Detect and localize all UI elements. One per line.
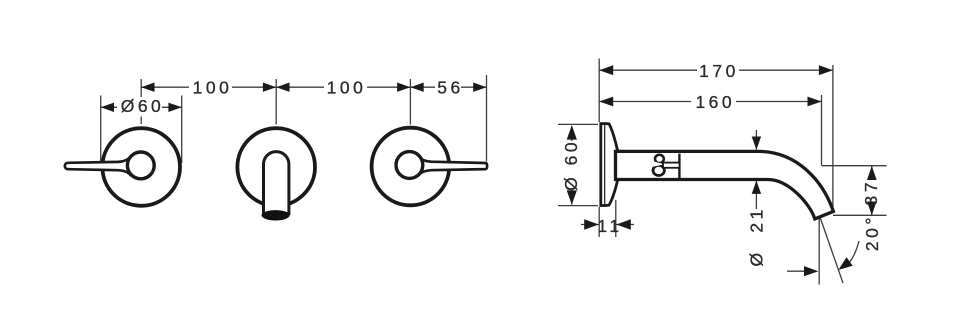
arrowheads side view (567, 65, 877, 276)
160 right extension line (821, 95, 823, 166)
svg-text:37: 37 (861, 179, 881, 205)
arrowheads front view dims (101, 83, 487, 113)
svg-text:Ø60: Ø60 (121, 96, 165, 116)
dimension text 100 (first) (189, 78, 232, 96)
dia60 arrows (567, 125, 577, 139)
dimension text 160 (691, 93, 736, 110)
svg-text:11: 11 (597, 216, 622, 236)
left handle knob circle (127, 152, 154, 179)
extension line above left handle center (101, 75, 487, 163)
extension line above middle spout center (275, 79, 277, 125)
middle spout escutcheon circle (237, 128, 315, 206)
dia21 dimension vertical lines (755, 130, 757, 150)
right handle lever (409, 157, 487, 176)
37 top extension line (822, 165, 887, 167)
dimension text dia 60 (117, 98, 162, 115)
svg-text:20°: 20° (862, 214, 882, 251)
spout body (side view) (616, 151, 834, 219)
20 deg horizontal arrow (804, 266, 818, 276)
middle spout outlet ellipse (262, 210, 290, 220)
37 arrows (867, 166, 877, 181)
dimension text 56 (435, 78, 461, 96)
170 arrows (599, 65, 613, 75)
160 arrows (599, 97, 613, 107)
middle spout tube (front) (264, 152, 289, 214)
20 deg angled line (820, 217, 843, 284)
svg-text:100: 100 (193, 78, 233, 98)
dia60 flange extension stubs (558, 123, 598, 125)
160 dimension line (599, 101, 821, 103)
dimension text 100 (second) (324, 78, 367, 96)
svg-text:170: 170 (699, 61, 739, 81)
dimension text dia60 rotated (563, 141, 581, 189)
extension line at right lever tip (486, 75, 488, 162)
svg-text:Ø 21: Ø 21 (746, 206, 766, 266)
dimension line dia60 (101, 106, 182, 108)
dia60 vertical dimension line (571, 126, 573, 205)
37 bottom extension line (833, 214, 887, 216)
20 deg arc (843, 241, 859, 268)
svg-text:100: 100 (327, 78, 367, 98)
dimension text 37 rotated (865, 180, 880, 202)
dia21 arrows (752, 137, 761, 150)
11 extension lines (615, 200, 617, 237)
dimension text 170 (697, 62, 739, 79)
right handle escutcheon circle (372, 128, 450, 206)
20 deg vertical reference line (818, 216, 820, 285)
11 arrows (584, 219, 599, 229)
escutcheon bell curves (605, 124, 617, 206)
dimension line 100/100/56 (141, 86, 486, 88)
escutcheon flange rim (side view) (601, 124, 606, 206)
37 dimension line (871, 166, 873, 215)
right handle knob circle (396, 152, 423, 179)
11 dim line (581, 224, 599, 226)
left handle escutcheon circle (102, 128, 180, 206)
svg-text:56: 56 (437, 78, 463, 98)
svg-text:Ø 60: Ø 60 (561, 139, 581, 191)
20 deg arc arrowhead (838, 257, 852, 270)
svg-text:160: 160 (695, 92, 735, 112)
set screw symbol inside spout (651, 155, 680, 176)
wall plane extension line (598, 59, 600, 123)
left handle lever (65, 157, 141, 175)
extension line above right handle center (409, 79, 411, 125)
170 dimension line (599, 69, 833, 71)
20 deg horizontal arrow tail (787, 270, 806, 272)
170 right extension line (832, 65, 834, 207)
extension lines for dia 60 (100, 96, 102, 164)
tube section line inside spout (678, 154, 680, 178)
